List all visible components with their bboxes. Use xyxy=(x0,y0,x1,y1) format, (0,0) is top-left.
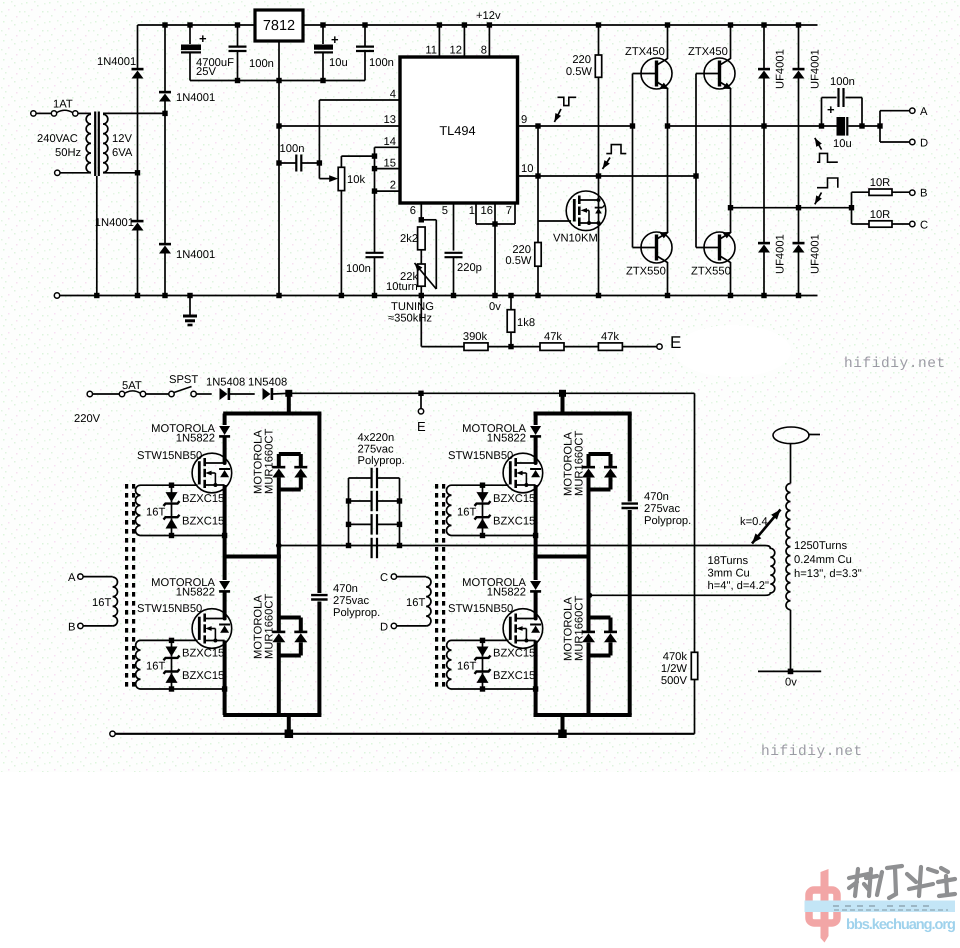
wire C8 left vertical xyxy=(821,98,823,127)
wire pin 9 line xyxy=(518,125,633,127)
resistor R9 220 0.5W xyxy=(535,243,541,267)
svg-text:1N5822: 1N5822 xyxy=(176,587,215,599)
wire gdt bottom to zener xyxy=(452,688,483,690)
diode D1 1N4001 xyxy=(132,69,144,78)
capacitor C6 100n xyxy=(366,253,384,257)
resistor R5 1k8 xyxy=(507,310,515,333)
terminal 220V N xyxy=(110,731,115,736)
svg-text:10k: 10k xyxy=(347,174,365,186)
wire cap ground bus xyxy=(190,80,365,82)
svg-text:10u: 10u xyxy=(329,57,348,69)
wire MUR loop top stub xyxy=(589,616,611,620)
wire C3 bottom lead xyxy=(322,54,324,81)
wire phase A rail xyxy=(223,555,281,559)
svg-text:BZXC15: BZXC15 xyxy=(182,670,224,682)
wire MUR chain lower xyxy=(587,642,591,655)
capacitor bank 220n #4 xyxy=(372,538,377,558)
wire VN10KM internal xyxy=(598,202,600,221)
wire gdt to source chain xyxy=(483,535,536,537)
zener BZXC15 lower xyxy=(164,669,180,683)
svg-text:4: 4 xyxy=(390,89,396,101)
svg-text:275vac: 275vac xyxy=(358,444,394,456)
wire bridge arm1 lower xyxy=(137,173,139,221)
node zener top xyxy=(169,483,174,488)
wire MUR loop bottom stub xyxy=(279,488,301,492)
resistor R7 47k xyxy=(598,343,622,351)
wire D9 to D10 xyxy=(230,393,255,395)
wire bank cap2 left xyxy=(349,500,372,502)
svg-text:12: 12 xyxy=(450,45,462,57)
wire pin 11 xyxy=(438,25,440,57)
wire zener z2 lead xyxy=(171,673,173,689)
terminal B bottom xyxy=(78,623,83,628)
svg-text:10u: 10u xyxy=(833,138,852,150)
resistor R6 47k xyxy=(540,343,564,351)
svg-text:7: 7 xyxy=(506,205,512,217)
resistor R8 220 0.5W xyxy=(595,55,601,77)
transistor Q7 STW15NB50 xyxy=(192,609,232,649)
svg-text:10turn: 10turn xyxy=(386,281,418,293)
node pin8 +12v xyxy=(487,22,492,27)
wire pin 4 xyxy=(319,99,400,101)
svg-text:h=4", d=4.2": h=4", d=4.2" xyxy=(708,580,769,592)
node E tap xyxy=(418,391,423,396)
svg-text:1250Turns: 1250Turns xyxy=(794,540,847,552)
node D5-output1 xyxy=(761,123,766,128)
node pin14 net xyxy=(372,153,377,158)
arrowhead 10k wiper xyxy=(329,175,338,182)
wire gdt top to zener xyxy=(141,484,172,486)
wire 4700uF top lead xyxy=(189,25,191,44)
wire MUR loop top stub xyxy=(279,452,301,456)
wire breakout point xyxy=(808,434,820,436)
wire Q2 base lead xyxy=(696,73,718,75)
wire MUR loop bottom stub xyxy=(589,488,611,492)
node bank right 2 xyxy=(397,498,402,503)
wire D8 top xyxy=(798,208,800,243)
GDT secondary winding 16T xyxy=(447,640,452,689)
capacitor C2 100n xyxy=(229,47,247,51)
capacitor C9 10u electrolytic xyxy=(837,117,849,136)
wire gdt bottom to zener xyxy=(141,535,172,537)
node zener bottom xyxy=(480,686,485,691)
node Q3-0v xyxy=(665,293,670,298)
node 7812 chain C5 wire xyxy=(276,160,281,165)
diode D11 1N5822 xyxy=(219,426,230,436)
terminal mains N xyxy=(55,170,60,175)
svg-text:100n: 100n xyxy=(346,263,371,275)
wire D10 to bus xyxy=(273,392,289,395)
wire Q8 source chain xyxy=(534,485,538,557)
wire MUR loop right upper xyxy=(299,454,303,467)
svg-text:10: 10 xyxy=(521,163,533,175)
wire pin 2 xyxy=(375,190,401,192)
wire MUR loop right upper xyxy=(609,454,613,467)
wire Q1 emitter xyxy=(667,88,669,126)
svg-text:0v: 0v xyxy=(489,301,501,313)
wire D8 bottom xyxy=(798,253,800,296)
node 7812 chain 0v xyxy=(276,293,281,298)
capacitor bank 220n #2 xyxy=(372,491,377,511)
IC U1 TL494 xyxy=(400,57,518,203)
svg-text:470n: 470n xyxy=(644,491,669,503)
node ground symbol xyxy=(187,293,192,298)
transistor Q3 ZTX550 xyxy=(641,232,672,263)
wire +12v rail right segment xyxy=(304,24,818,26)
node secondary ground xyxy=(788,669,794,675)
wire 2k2-22k xyxy=(420,250,422,264)
svg-text:STW15NB50: STW15NB50 xyxy=(137,603,202,615)
wire to pot wiper xyxy=(318,163,320,179)
node shield-0v xyxy=(94,293,99,298)
wire bank cap2 right xyxy=(377,500,400,502)
diode MUR1660CT half A xyxy=(272,632,285,642)
wire MUR chain upper xyxy=(587,454,591,467)
node A-D split xyxy=(877,123,882,128)
white halo xyxy=(675,325,791,377)
node zener bottom xyxy=(480,533,485,538)
wire C5 left lead xyxy=(279,162,296,164)
node 7812 chain pin13 wire xyxy=(276,123,281,128)
wire bridge arm1 middle xyxy=(137,79,139,173)
transformer T1 primary winding xyxy=(86,114,91,172)
wire 0v to E-line xyxy=(420,296,422,347)
wire zener z2 lead xyxy=(482,518,484,535)
wire gdt to gate xyxy=(172,484,198,486)
wire pin 14 xyxy=(375,146,401,148)
svg-text:bbs.kechuang.org: bbs.kechuang.org xyxy=(846,917,955,933)
svg-text:B: B xyxy=(920,188,927,200)
node bank left bottom xyxy=(346,543,351,548)
svg-text:14: 14 xyxy=(384,136,396,148)
node gdt-source chain xyxy=(222,686,227,691)
terminal C xyxy=(910,221,915,226)
svg-text:≈350kHz: ≈350kHz xyxy=(388,313,432,325)
wire C5 right lead xyxy=(302,162,320,164)
topload torus xyxy=(773,427,809,444)
terminal A xyxy=(910,108,915,113)
capacitor C11 470n xyxy=(622,504,639,508)
svg-text:12V: 12V xyxy=(112,133,132,145)
diode MUR1660CT half A xyxy=(272,467,285,477)
svg-text:275vac: 275vac xyxy=(644,503,680,515)
capacitor C3 10u electrolytic xyxy=(314,45,333,54)
wire MUR loop top stub xyxy=(589,452,611,456)
svg-text:16T: 16T xyxy=(92,597,111,609)
wire 4700uF bottom lead xyxy=(189,54,191,81)
zener BZXC15 upper xyxy=(475,647,491,661)
node arm2-0v xyxy=(162,293,167,298)
wire DC- stub left xyxy=(287,715,291,734)
fuse F1 1AT xyxy=(51,110,78,116)
node bank right bottom xyxy=(397,543,402,548)
node DC+ feed right xyxy=(559,390,566,397)
node 7812 gnd bus xyxy=(276,78,281,83)
svg-text:390k: 390k xyxy=(463,331,488,343)
wire gnd pins to 0v xyxy=(494,224,496,296)
svg-text:47k: 47k xyxy=(544,331,562,343)
svg-text:1N4001: 1N4001 xyxy=(176,92,215,104)
resistor R2 2k2 xyxy=(418,227,426,250)
wire MUR loop right lower xyxy=(609,642,613,655)
node zener bottom xyxy=(169,686,174,691)
wire bleeder lower xyxy=(694,680,696,734)
svg-text:Polyprop.: Polyprop. xyxy=(644,515,691,527)
svg-text:UF4001: UF4001 xyxy=(810,234,822,274)
node Q4-0v xyxy=(728,293,733,298)
svg-text:MUR1660CT: MUR1660CT xyxy=(264,429,276,494)
svg-text:1N5822: 1N5822 xyxy=(487,587,526,599)
wire 1k8 top xyxy=(510,296,512,310)
wire bleeder upper xyxy=(694,393,696,652)
wire secondary bottom xyxy=(103,172,138,174)
GDT2 core xyxy=(435,484,438,687)
svg-text:16T: 16T xyxy=(406,597,425,609)
wire MUR2 chain to DC- xyxy=(277,656,281,716)
node 1k8-0v xyxy=(508,293,513,298)
wire C4 top lead xyxy=(364,25,366,46)
capacitor C7 220p xyxy=(445,253,463,257)
wire gdt bottom to zener xyxy=(452,535,483,537)
fuse F2 5AT xyxy=(119,391,145,397)
node bank right 3 xyxy=(397,522,402,527)
wire zener z1 lead xyxy=(171,640,173,656)
wire gdt to gate xyxy=(483,484,509,486)
zener BZXC15 lower xyxy=(475,515,491,529)
resistor R10 10R xyxy=(869,189,892,195)
wire pin 12 xyxy=(463,25,465,57)
wire topload stem xyxy=(790,444,792,484)
GDT2 core line2 xyxy=(442,484,445,687)
diode D10 1N5408 xyxy=(263,388,272,400)
wire 220V to fuse xyxy=(93,393,120,395)
potentiometer R3 22k xyxy=(418,264,426,286)
node zener top xyxy=(480,638,485,643)
wire D6 bottom xyxy=(798,79,800,208)
wire 22k bottom xyxy=(420,286,422,295)
diode D6 UF4001 xyxy=(793,69,805,78)
wire MUR3 chain to phase B xyxy=(587,490,591,557)
node D7-0v xyxy=(761,293,766,298)
svg-text:7812: 7812 xyxy=(263,18,295,34)
wire switch to D9 xyxy=(196,393,211,395)
wire MUR loop top stub xyxy=(279,616,301,620)
wire 220V return rail xyxy=(115,733,694,735)
svg-text:220p: 220p xyxy=(457,262,482,274)
svg-text:47k: 47k xyxy=(601,331,619,343)
wire pin 8 xyxy=(488,25,490,57)
node D8-0v xyxy=(796,293,801,298)
node IC gnd 0v xyxy=(492,293,497,298)
svg-text:16: 16 xyxy=(481,205,493,217)
wire pin4 vertical xyxy=(318,100,320,163)
node C2 +12v xyxy=(235,22,240,27)
node gdt-source chain xyxy=(533,686,538,691)
svg-text:C: C xyxy=(920,220,928,232)
diode D7 UF4001 xyxy=(758,243,770,252)
wire feed stub left xyxy=(287,393,291,413)
wire core shield to 0v xyxy=(96,176,98,296)
potentiometer R1 10k xyxy=(338,167,344,190)
node pin15 net xyxy=(372,166,377,171)
wire C8 left lead xyxy=(822,97,837,99)
wire pin 13 xyxy=(279,125,400,127)
node pin12 +12v xyxy=(462,22,467,27)
terminal D xyxy=(910,139,915,144)
wire zener middle xyxy=(482,504,484,516)
GDT secondary winding 16T xyxy=(135,485,140,535)
svg-text:ZTX550: ZTX550 xyxy=(626,266,666,278)
wire DC+ rail left half xyxy=(223,412,321,416)
svg-text:1: 1 xyxy=(469,205,475,217)
wire tank line xyxy=(279,545,765,547)
svg-text:BZXC15: BZXC15 xyxy=(493,670,535,682)
svg-text:16T: 16T xyxy=(457,661,476,673)
wire VN10KM drain xyxy=(598,176,600,198)
node C3 gnd xyxy=(320,78,325,83)
node bank left 3 xyxy=(346,522,351,527)
node DC- left xyxy=(285,730,294,739)
wire R10 to B xyxy=(892,191,910,193)
node C4 +12v xyxy=(362,22,367,27)
wire gdt to gate xyxy=(172,639,198,641)
wire bridge arm2 mid1 xyxy=(164,102,166,114)
svg-text:100n: 100n xyxy=(249,58,274,70)
junction dot phase A tank xyxy=(276,543,282,549)
wire pin 6 xyxy=(420,203,422,220)
capacitor bank 220n #3 xyxy=(372,514,377,535)
wire to D xyxy=(880,141,910,143)
wire zener middle xyxy=(171,504,173,516)
zener BZXC15 upper xyxy=(164,647,180,661)
node 10k-0v xyxy=(339,293,344,298)
wire gdt top to zener xyxy=(452,639,483,641)
node pin6 xyxy=(419,217,424,222)
capacitor C4 100n xyxy=(356,47,374,51)
wire A-D vertical xyxy=(879,111,881,142)
svg-text:13: 13 xyxy=(384,114,396,126)
node 22k-0v xyxy=(419,293,424,298)
node D6 +12v xyxy=(796,22,801,27)
svg-text:VN10KM: VN10KM xyxy=(553,233,598,245)
wire 10k bottom lead xyxy=(340,191,342,296)
node D5 +12v xyxy=(761,22,766,27)
wire MUR chain upper xyxy=(587,618,591,632)
svg-text:hifidiy.net: hifidiy.net xyxy=(761,744,863,760)
svg-text:220V: 220V xyxy=(74,413,101,425)
wire gate lead VN10KM xyxy=(538,220,571,222)
wire Q2 emitter xyxy=(730,88,732,208)
wire pin 10 line xyxy=(518,175,697,177)
node gdt-source chain xyxy=(222,533,227,538)
svg-text:UF4001: UF4001 xyxy=(775,234,787,274)
svg-text:1N5408: 1N5408 xyxy=(206,377,245,389)
node arm1-0v xyxy=(135,293,140,298)
wire Q7 drain chain upper xyxy=(223,557,227,581)
wire winding to D xyxy=(397,625,427,627)
wire DC- stub right xyxy=(561,715,565,734)
wire gdt bottom to zener xyxy=(141,688,172,690)
GDT1 primary winding 16T xyxy=(113,577,118,626)
svg-text:MUR1660CT: MUR1660CT xyxy=(574,431,586,496)
transistor Q8 STW15NB50 xyxy=(503,453,543,493)
diode MUR1660CT half B xyxy=(604,632,617,642)
svg-text:A: A xyxy=(920,106,928,118)
secondary coil L2 1250Turns xyxy=(786,484,791,610)
wire Q1 base lead xyxy=(633,73,656,75)
wire pins 1-16-7 bracket xyxy=(476,223,515,225)
svg-text:BZXC15: BZXC15 xyxy=(493,516,535,528)
wire snubber leg left lower xyxy=(317,602,321,716)
wire secondary bottom xyxy=(790,610,792,672)
terminal 220V L xyxy=(87,391,92,396)
svg-text:16T: 16T xyxy=(146,661,165,673)
wire C to winding xyxy=(397,576,427,578)
wire C8 right lead xyxy=(845,97,862,99)
square-wave symbol output2 xyxy=(817,178,838,188)
svg-text:9: 9 xyxy=(521,114,527,126)
wire MUR loop right lower xyxy=(299,642,303,655)
wire bank right bus xyxy=(399,478,401,546)
node output2 emitters xyxy=(728,205,733,210)
wire R8 top xyxy=(598,25,600,55)
svg-text:Polyprop.: Polyprop. xyxy=(333,607,380,619)
transistor Q5 VN10KM mosfet xyxy=(566,191,606,231)
wire E-line seg1 xyxy=(421,346,464,348)
svg-text:1AT: 1AT xyxy=(53,99,73,111)
wire MUR chain lower xyxy=(277,642,281,655)
transistor Q9 STW15NB50 xyxy=(503,609,543,649)
transistor Q4 ZTX550 xyxy=(704,232,735,263)
node DC- right xyxy=(558,730,567,739)
wire 10k top lead xyxy=(340,156,342,167)
transistor Q2 ZTX450 xyxy=(704,58,735,89)
wire VN10KM source to 0v xyxy=(598,225,600,296)
wire totem2 base vertical xyxy=(695,74,697,248)
wire zener z2 lead xyxy=(171,518,173,535)
wire Q4 collector to 0v xyxy=(730,262,732,296)
diode D13 1N5822 xyxy=(530,426,541,436)
svg-text:BZXC15: BZXC15 xyxy=(182,516,224,528)
wire gdt to source chain xyxy=(172,688,225,690)
wire zener middle xyxy=(171,659,173,671)
wire R9 bottom xyxy=(537,266,539,295)
node pin11 +12v xyxy=(437,22,442,27)
arrow squarewave pin9 xyxy=(552,109,562,123)
svg-text:2: 2 xyxy=(390,180,396,192)
wire Q3 collector to 0v xyxy=(667,262,669,296)
svg-text:470k: 470k xyxy=(663,651,688,663)
wire C4 bottom lead xyxy=(364,52,366,81)
GDT1 core line2 xyxy=(132,484,135,687)
wire MUR1 chain to phase A xyxy=(277,490,281,557)
wire Q1 collector xyxy=(667,25,669,59)
wire snubber leg right upper xyxy=(628,414,632,502)
wire primary bottom xyxy=(60,172,91,174)
wire C8 right vertical xyxy=(861,98,863,127)
svg-text:11: 11 xyxy=(425,45,437,57)
wire Q6 drain chain upper xyxy=(223,414,227,426)
wire output1 vertical xyxy=(667,126,669,233)
wire MUR chain upper xyxy=(277,454,281,467)
capacitor C1 4700uF electrolytic xyxy=(181,45,201,54)
wire Q4 base lead xyxy=(696,247,718,249)
wire snubber leg right lower xyxy=(628,510,632,715)
svg-text:SPST: SPST xyxy=(169,374,198,386)
svg-text:275vac: 275vac xyxy=(333,595,369,607)
svg-text:6VA: 6VA xyxy=(112,147,133,159)
terminal C bottom xyxy=(391,574,396,579)
